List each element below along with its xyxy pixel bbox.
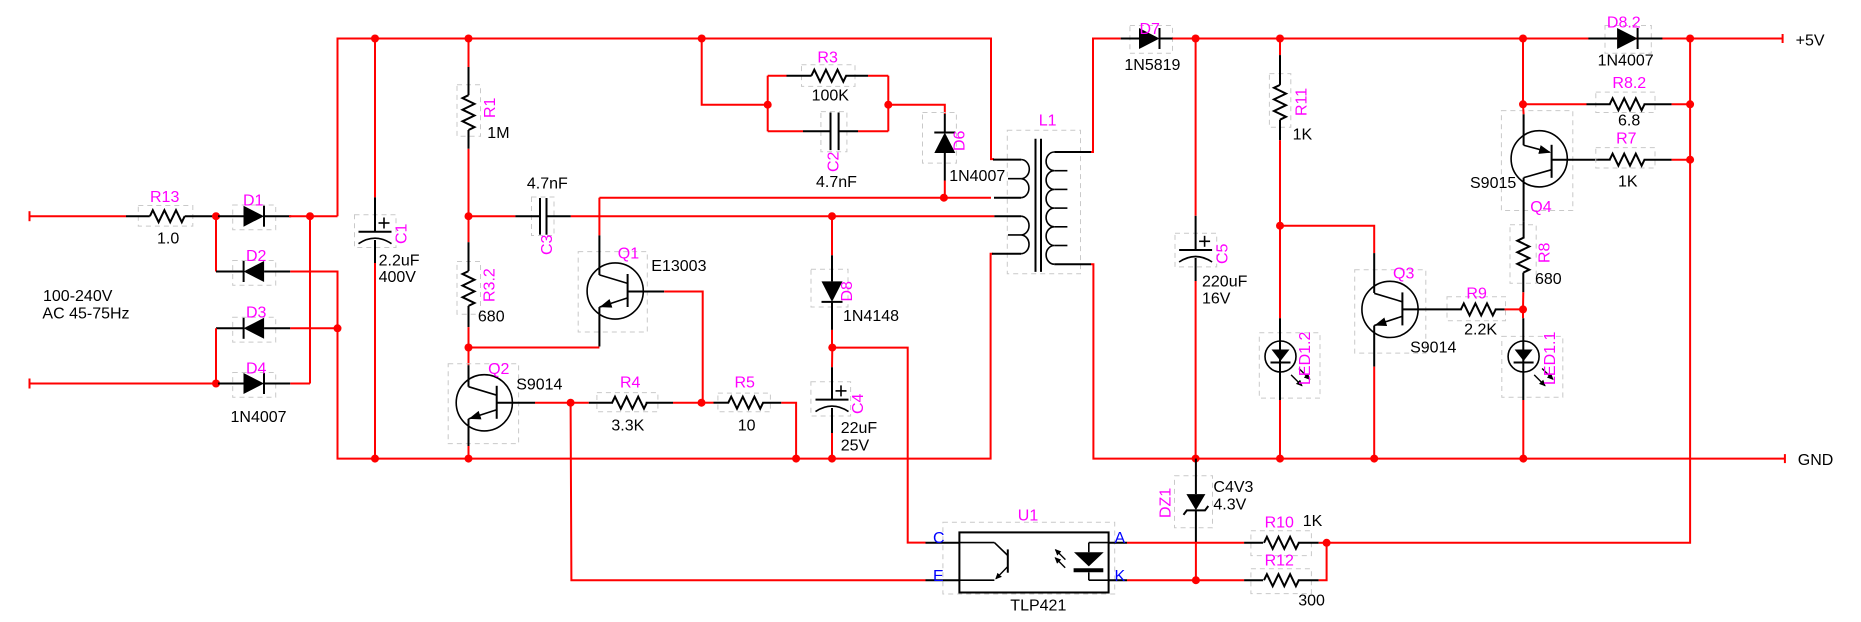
svg-text:1N4007: 1N4007 (1598, 53, 1654, 70)
transistor Q3 (1355, 253, 1457, 367)
wire (1173, 38, 1196, 40)
wire: LED1.1 to GND (1522, 400, 1524, 459)
svg-text:680: 680 (1535, 271, 1562, 288)
junction R7 right (1686, 156, 1694, 164)
junction R11 top (1276, 35, 1284, 43)
capacitor C3 (469, 175, 571, 255)
wire: C4 to bus (831, 433, 833, 459)
svg-text:4.7nF: 4.7nF (816, 174, 857, 191)
transistor Q2 (448, 361, 562, 446)
svg-text:25V: 25V (841, 438, 870, 455)
wire: D2 anode to negative column (290, 272, 337, 329)
wire: D3 cathode down to AC2 (215, 328, 217, 383)
wire (374, 263, 376, 459)
svg-text:D8: D8 (839, 281, 856, 302)
wire: D4 cathode column (309, 216, 311, 383)
junction R5 (792, 455, 800, 463)
wire: R3.2 bottom (468, 327, 470, 347)
wire: Q1 emitter to R3.2 node (469, 347, 600, 349)
junction R8.2/Q4 (1519, 100, 1527, 108)
wire: Q3 emitter to GND (1373, 367, 1375, 459)
wire: R3.2 top (468, 216, 470, 242)
wire: R1 top (468, 39, 470, 68)
junction R4/R5/Q1 base (698, 399, 706, 407)
capacitor C1 (355, 197, 420, 286)
wire: Q2 base node down to opto E row (571, 403, 926, 581)
junction D1/D4 cathodes (306, 212, 314, 220)
diode D4 (218, 361, 290, 427)
svg-text:680: 680 (478, 309, 505, 326)
svg-text:Q1: Q1 (618, 245, 639, 262)
svg-text:TLP421: TLP421 (1010, 598, 1066, 615)
resistor R5 (702, 375, 782, 435)
junction D8/C4/opto C (828, 344, 836, 352)
wire (768, 75, 787, 77)
svg-text:C2: C2 (826, 151, 843, 172)
svg-text:1N5819: 1N5819 (1124, 57, 1180, 74)
wire (702, 402, 714, 404)
svg-text:C4: C4 (850, 393, 867, 414)
wire: D4 cathode (290, 383, 310, 385)
wire: R11 top (1279, 39, 1281, 56)
svg-text:300: 300 (1298, 592, 1325, 609)
wire: secondary GND bus (1091, 264, 1785, 458)
wire (1505, 308, 1523, 310)
svg-text:6.8: 6.8 (1618, 112, 1640, 129)
svg-text:4.7nF: 4.7nF (527, 175, 568, 192)
wire: C1 column (374, 39, 376, 198)
resistor R11 (1269, 55, 1312, 143)
junction R11/LED1.2/Q3 (1276, 222, 1284, 230)
wire: C5 column (1195, 39, 1197, 216)
diode D7 (1121, 21, 1196, 74)
svg-text:GND: GND (1798, 452, 1834, 469)
resistor R8.2 (1523, 75, 1672, 129)
junction C1 top (371, 35, 379, 43)
svg-text:C4V3: C4V3 (1213, 479, 1253, 496)
wire: Q2 collector (468, 348, 470, 366)
transistor Q1 (578, 235, 706, 346)
junction Q4 emitter top (1519, 35, 1527, 43)
svg-text:10: 10 (738, 418, 756, 435)
junction R8/R9/LED1.1 (1519, 305, 1527, 313)
wire: +5V sense column (1327, 39, 1691, 543)
junction Q2 base/R4/opto (567, 399, 575, 407)
svg-text:R11: R11 (1294, 88, 1311, 116)
svg-text:4.3V: 4.3V (1213, 497, 1246, 514)
svg-text:E13003: E13003 (651, 258, 706, 275)
junction D2/D3 anodes (334, 324, 342, 332)
svg-text:S9015: S9015 (1470, 175, 1516, 192)
wire: R1 bottom (468, 149, 470, 216)
svg-text:R7: R7 (1616, 131, 1637, 148)
wire: R8 bottom (1522, 292, 1524, 309)
junction R3.2/Q2 collector/Q1 emitter (465, 344, 473, 352)
wire: GND end tick (1784, 454, 1786, 463)
junction D7/C5 (1192, 35, 1200, 43)
svg-text:1N4007: 1N4007 (949, 168, 1005, 185)
capacitor C5 (1175, 216, 1248, 308)
node AC1 (212, 212, 220, 220)
svg-text:D6: D6 (952, 130, 969, 151)
svg-text:2.2uF: 2.2uF (379, 253, 420, 270)
wire: +5V end tick (1782, 34, 1784, 43)
wire: snubber left feed (702, 39, 768, 105)
wire: snubber to D6 (888, 105, 945, 114)
svg-text:R9: R9 (1466, 286, 1487, 303)
wire: D8 cathode (831, 330, 833, 348)
pin C (926, 542, 960, 544)
wire: R5 to ground bus (781, 403, 796, 459)
wire: AC1 down to D2 (215, 216, 217, 271)
svg-text:K: K (1115, 568, 1126, 585)
wire: R11 bottom (1279, 140, 1281, 226)
svg-text:D2: D2 (246, 248, 267, 265)
wire: Q1 collector riser (598, 198, 600, 236)
junction snubber feed (698, 35, 706, 43)
junction DZ1/R12 (1192, 576, 1200, 584)
svg-text:R5: R5 (735, 375, 756, 392)
resistor R4 (571, 375, 673, 435)
wire (1672, 159, 1691, 161)
svg-text:R4: R4 (620, 375, 641, 392)
wire: R12 up to R10 node (1319, 543, 1327, 580)
junction R8.2 right (1686, 100, 1694, 108)
junction D6 anode (940, 194, 948, 202)
svg-text:100-240V: 100-240V (43, 288, 113, 305)
svg-text:S9014: S9014 (516, 377, 562, 394)
svg-text:D4: D4 (246, 361, 267, 378)
svg-text:A: A (1115, 530, 1126, 547)
junction Q3 emitter (1370, 455, 1378, 463)
svg-text:L1: L1 (1039, 113, 1057, 130)
wire: snubber feed line (Q1 collector to primary) (599, 197, 991, 199)
wire (1173, 38, 1783, 40)
wire: DZ1 to K row (1195, 542, 1197, 580)
diode D8 (811, 216, 899, 330)
svg-text:E: E (933, 568, 944, 585)
svg-text:22uF: 22uF (841, 420, 878, 437)
wire: AC line 1 input (29, 211, 31, 221)
wire: Q4 emitter column (1522, 39, 1524, 105)
wire (571, 402, 589, 404)
wire: D6 anode (944, 181, 946, 198)
svg-text:16V: 16V (1202, 291, 1231, 308)
wire: primary ground bottom bus (338, 254, 994, 459)
wire: LED1.2 top (1279, 226, 1281, 319)
wire (1522, 104, 1525, 114)
pin A (1109, 542, 1127, 544)
pin E (926, 579, 960, 581)
wire: Q2 base (535, 402, 571, 404)
svg-text:400V: 400V (379, 269, 417, 286)
wire: LED1.2 to GND (1279, 400, 1281, 459)
node AC2 (212, 380, 220, 388)
LED LED1.2 (1259, 318, 1320, 400)
junction Q2 emitter (465, 455, 473, 463)
resistor R12 (1244, 553, 1325, 610)
svg-text:R3: R3 (817, 50, 838, 67)
svg-text:LED1.1: LED1.1 (1542, 332, 1559, 385)
svg-text:C: C (933, 530, 945, 547)
resistor R8 (1510, 222, 1562, 293)
wire: D1 cathode to top bus (289, 215, 338, 217)
wire (768, 130, 803, 132)
svg-text:Q2: Q2 (488, 361, 509, 378)
svg-text:R1: R1 (482, 97, 499, 118)
resistor R7 (1596, 131, 1672, 191)
junction R10/R12 (1323, 539, 1331, 547)
svg-text:C3: C3 (539, 234, 556, 255)
wire: Q1 base to R4/R5 node (664, 292, 703, 403)
svg-text:1M: 1M (487, 125, 509, 142)
svg-text:R3.2: R3.2 (482, 268, 499, 302)
resistor R13 (126, 189, 216, 248)
svg-text:100K: 100K (812, 88, 850, 105)
svg-text:C1: C1 (394, 223, 411, 244)
wire: +5V top bus (1091, 39, 1121, 153)
resistor R3 (768, 50, 868, 105)
svg-text:DZ1: DZ1 (1158, 488, 1175, 518)
wire: C3 to aux winding row (571, 215, 995, 217)
svg-text:1N4148: 1N4148 (843, 308, 899, 325)
wire (831, 348, 833, 368)
junction LED1.2 (1276, 455, 1284, 463)
svg-text:D1: D1 (243, 193, 264, 210)
diode D2 (216, 248, 290, 285)
svg-text:1K: 1K (1293, 127, 1313, 144)
svg-text:2.2K: 2.2K (1464, 322, 1497, 339)
diode D8.2 (1588, 15, 1662, 70)
svg-text:Q4: Q4 (1530, 199, 1551, 216)
svg-text:R13: R13 (150, 189, 179, 206)
svg-text:D8.2: D8.2 (1607, 15, 1641, 32)
wire: primary +310V top bus (338, 39, 995, 217)
wire: AC line 2 input (29, 379, 31, 389)
pin K (1109, 579, 1127, 581)
wire: LED1.1 top (1522, 309, 1524, 318)
diode D3 (216, 305, 290, 343)
resistor R3.2 (457, 242, 505, 327)
resistor R10 (1244, 513, 1322, 556)
svg-text:C5: C5 (1215, 243, 1232, 264)
capacitor C2 (768, 112, 858, 191)
svg-text:R8: R8 (1537, 242, 1554, 263)
junction LED1.1 (1519, 455, 1527, 463)
diode D6 (923, 113, 1006, 186)
wire (1672, 103, 1691, 105)
junction D8 top (828, 212, 836, 220)
op-amp U1 (optocoupler TLP421) (926, 508, 1128, 615)
svg-text:S9014: S9014 (1410, 340, 1456, 357)
svg-text:R8.2: R8.2 (1612, 75, 1646, 92)
svg-text:AC 45-75Hz: AC 45-75Hz (42, 306, 129, 323)
wire (469, 215, 516, 217)
svg-text:R10: R10 (1265, 515, 1294, 532)
junction D8.2 cathode (1686, 35, 1694, 43)
svg-text:3.3K: 3.3K (611, 418, 644, 435)
transformer L1 (992, 113, 1091, 274)
wire: snubber left verticals (767, 76, 769, 132)
wire (831, 216, 833, 255)
svg-text:Q3: Q3 (1393, 265, 1414, 282)
svg-text:LED1.2: LED1.2 (1297, 332, 1314, 385)
wire: snubber right vertical (887, 76, 889, 132)
wire (30, 215, 127, 217)
resistor R1 (457, 67, 510, 149)
svg-text:+5V: +5V (1796, 33, 1825, 50)
junction R1 top (465, 35, 473, 43)
resistor R9 (1440, 286, 1506, 339)
node snubber right (884, 101, 892, 109)
wire (30, 383, 217, 385)
svg-text:1.0: 1.0 (157, 231, 179, 248)
wire (858, 130, 888, 132)
svg-text:U1: U1 (1018, 508, 1039, 525)
junction R1/R3.2/C3 (465, 212, 473, 220)
LED LED1.1 (1502, 318, 1563, 400)
zener diode DZ1 (1158, 459, 1254, 543)
junction C5/DZ1 (1192, 455, 1200, 463)
wire: opto A to R10 (1127, 542, 1244, 544)
junction C4 (828, 455, 836, 463)
svg-text:220uF: 220uF (1202, 274, 1248, 291)
junction C1 bottom (371, 455, 379, 463)
svg-text:D7: D7 (1140, 21, 1161, 38)
wire: C5 to GND (1195, 281, 1197, 459)
svg-text:D3: D3 (246, 305, 267, 322)
wire: Q2 emitter to bus (468, 446, 470, 459)
wire: to Q3 collector (1280, 226, 1374, 253)
svg-text:1K: 1K (1618, 174, 1638, 191)
wire (1523, 103, 1587, 105)
svg-text:1K: 1K (1303, 513, 1323, 530)
capacitor C4 (811, 348, 877, 455)
wire: D8 node to opto C (832, 348, 925, 543)
node snubber left (764, 101, 772, 109)
wire (1319, 542, 1327, 544)
wire: opto K to R12 (1127, 579, 1244, 581)
wire (868, 75, 888, 77)
transistor Q4 (1470, 104, 1598, 221)
wire (673, 402, 702, 404)
svg-text:1N4007: 1N4007 (231, 409, 287, 426)
svg-text:R12: R12 (1265, 553, 1294, 570)
wire: D3 anode to junction (290, 327, 337, 329)
diode D1 (218, 193, 291, 230)
